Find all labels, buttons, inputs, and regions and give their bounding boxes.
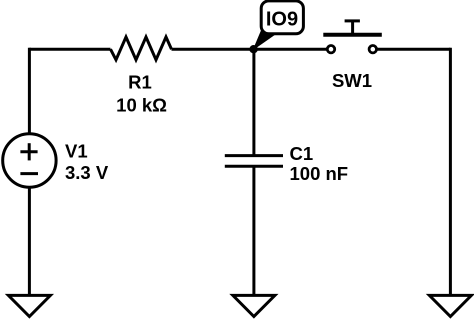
ground (left) (8, 295, 50, 316)
wire left vertical (top wire down to V1) (28, 48, 31, 134)
wire from C1 to middle ground (252, 166, 255, 296)
wire right vertical (switch to right ground) (449, 48, 452, 296)
svg-text:10 kΩ: 10 kΩ (116, 95, 167, 116)
resistor R1 (111, 37, 172, 116)
node IO9 junction dot (249, 45, 257, 53)
svg-text:R1: R1 (128, 72, 152, 93)
capacitor C1 (225, 143, 348, 184)
ground (right) (429, 295, 471, 316)
svg-text:C1: C1 (290, 143, 314, 164)
svg-text:100 nF: 100 nF (290, 163, 349, 184)
svg-text:IO9: IO9 (266, 9, 298, 31)
wire from SW1 to right corner (377, 48, 450, 51)
node IO9 flag callout (254, 1, 304, 49)
voltage source V1 (3, 134, 109, 187)
svg-text:V1: V1 (65, 140, 88, 161)
wire top-left horizontal from V1 branch to resistor R1 (29, 48, 110, 51)
svg-text:SW1: SW1 (332, 70, 372, 91)
wire from V1 to left ground (28, 187, 31, 296)
wire from R1 to switch SW1 (172, 48, 328, 51)
ground (middle) (233, 295, 275, 316)
svg-text:3.3 V: 3.3 V (65, 162, 109, 183)
wire middle vertical (node to C1) (252, 49, 255, 155)
switch SW1 (pushbutton) (323, 21, 382, 91)
